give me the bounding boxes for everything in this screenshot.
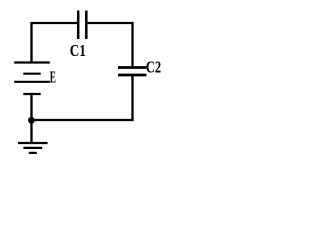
- battery E upper short plate: [23, 73, 40, 75]
- wire: right rail from C2 bottom plate to bottom-right corner then bottom wire to junction: [32, 75, 133, 120]
- wire: battery negative lead down to junction and ground: [30, 94, 32, 143]
- svg-text:E: E: [50, 67, 56, 86]
- capacitor C1 left plate: [77, 11, 80, 40]
- ground bar 3 (short): [29, 152, 37, 154]
- battery E top long plate: [14, 61, 50, 63]
- capacitor C2 bottom plate: [118, 74, 146, 77]
- wire: top-left segment from left rail to C1 left plate: [32, 23, 78, 62]
- ground bar 2 (medium): [23, 147, 42, 149]
- node junction dot: [28, 117, 35, 124]
- capacitor C1 right plate: [85, 11, 88, 40]
- wire: top-right segment from C1 right plate to right rail down to C2 top plate: [87, 23, 133, 66]
- battery E lower long plate: [14, 81, 50, 83]
- ground bar 1 (long): [18, 142, 48, 144]
- battery E bottom short plate: [23, 93, 40, 95]
- svg-text:C2: C2: [146, 57, 161, 76]
- capacitor C2 top plate: [118, 66, 146, 69]
- svg-text:C1: C1: [70, 41, 86, 60]
